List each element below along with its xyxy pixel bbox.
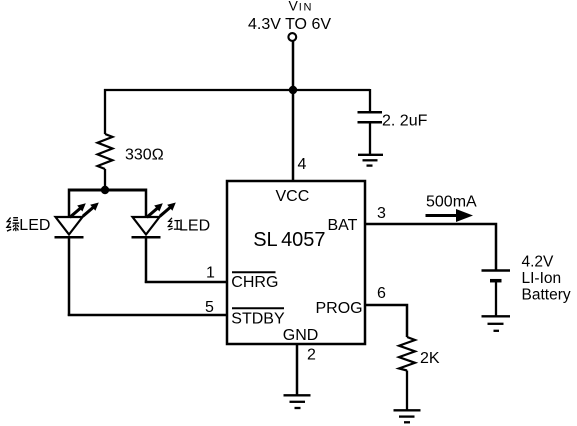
capacitor 2.2uF bottom plate	[358, 121, 383, 124]
current arrow 500mA	[426, 209, 474, 222]
IC U1 SL4057 body	[227, 181, 365, 344]
svg-text:STDBY: STDBY	[231, 311, 285, 328]
wire left LED leg	[68, 189, 71, 218]
svg-text:VCC: VCC	[276, 188, 310, 205]
wire D2 cathode down to CHRG	[145, 236, 148, 283]
wire 2K to ground	[406, 371, 408, 411]
resistor 330ohm	[98, 134, 113, 169]
svg-text:4.3V TO 6V: 4.3V TO 6V	[248, 16, 331, 33]
wire PROG pin 6 to resistor 2K	[365, 305, 407, 337]
svg-text:Battery: Battery	[522, 287, 571, 304]
battery BT1 positive plate	[482, 269, 511, 272]
svg-text:IN: IN	[299, 2, 313, 14]
ground 2K	[394, 410, 421, 422]
wire resistor to LED rail	[104, 169, 106, 190]
ground battery	[482, 316, 511, 331]
LED D2 red triangle	[133, 217, 160, 235]
wire VIN vertical to VCC pin	[292, 42, 295, 182]
svg-text:GND: GND	[283, 327, 319, 344]
wire battery to ground	[495, 282, 497, 316]
svg-text:4.2V: 4.2V	[522, 253, 555, 270]
wire D1 cathode down to STDBY	[68, 236, 71, 316]
wire LED rail	[69, 189, 146, 192]
junction LED rail	[101, 186, 109, 194]
wire capacitor to ground	[369, 123, 371, 154]
terminal VIN (open circle)	[288, 33, 296, 41]
LED D2 cathode bar	[132, 236, 161, 239]
svg-text:PROG: PROG	[316, 300, 363, 317]
wire STDBY pin 5 horizontal	[68, 314, 227, 317]
svg-text:LED: LED	[179, 217, 210, 234]
wire left drop to resistor R 330	[104, 89, 106, 134]
svg-text:V: V	[289, 0, 299, 14]
wire CHRG pin 1 horizontal	[145, 281, 227, 284]
capacitor 2.2uF top plate	[358, 111, 383, 114]
label CHRG with overline	[231, 272, 278, 291]
svg-text:4: 4	[298, 156, 307, 173]
svg-text:5: 5	[205, 299, 214, 316]
svg-text:LI-Ion: LI-Ion	[522, 270, 562, 287]
junction VIN rail	[289, 86, 297, 94]
label green LED (hanzi drawn as paths)	[7, 217, 51, 234]
svg-text:2. 2uF: 2. 2uF	[382, 113, 428, 130]
label red LED (hanzi drawn as paths)	[168, 217, 210, 234]
svg-text:SL4057: SL4057	[253, 229, 325, 251]
wire GND pin 2 to ground	[296, 344, 299, 395]
svg-text:500mA: 500mA	[426, 194, 477, 211]
LED D2 arrow 2	[160, 203, 176, 217]
ground GND pin	[284, 395, 311, 408]
wire capacitor drop	[369, 89, 371, 112]
resistor 2K	[399, 337, 415, 371]
LED D1 arrow 1	[70, 203, 86, 217]
LED D1 green triangle	[56, 217, 83, 235]
svg-text:BAT: BAT	[328, 217, 358, 234]
LED D1 arrow 2	[83, 203, 99, 217]
svg-text:6: 6	[377, 285, 386, 302]
ground capacitor	[358, 155, 383, 166]
node VIN label	[289, 0, 314, 14]
battery BT1 negative plate	[490, 279, 502, 283]
svg-text:2: 2	[307, 347, 316, 364]
svg-text:2K: 2K	[420, 350, 440, 367]
wire BAT pin 3 to battery	[365, 224, 496, 270]
label 4.2V LI-Ion Battery	[522, 253, 571, 303]
svg-text:LED: LED	[19, 217, 50, 234]
LED D1 cathode bar	[55, 236, 84, 239]
wire top rail (left branch to 330R, right branch to capacitor)	[104, 89, 370, 91]
label STDBY with overline	[231, 308, 285, 327]
svg-text:330Ω: 330Ω	[125, 147, 164, 164]
LED D2 arrow 1	[147, 203, 163, 217]
wire right LED leg	[145, 189, 148, 218]
svg-text:CHRG: CHRG	[231, 274, 278, 291]
svg-text:3: 3	[377, 205, 386, 222]
svg-text:1: 1	[206, 265, 215, 282]
